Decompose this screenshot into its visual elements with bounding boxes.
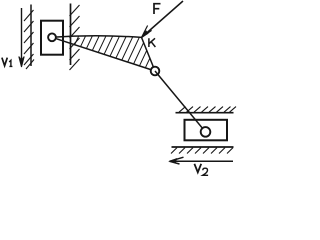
force arrow F: [142, 1, 184, 38]
left wall hatching: [24, 10, 34, 69]
pin joint in slider 2: [201, 127, 211, 137]
top rail of bottom guide: [176, 112, 234, 114]
right rail hatching: [70, 5, 80, 70]
slider block 1 (left): [41, 21, 63, 55]
right guide rail of left slider: [70, 4, 72, 66]
pin joint in slider 1: [48, 33, 56, 41]
label F: [154, 4, 161, 14]
velocity arrow V2: [170, 157, 234, 164]
top rail hatching: [179, 107, 236, 113]
label V1: [2, 58, 13, 67]
triangle link PKB (outline): [52, 36, 155, 71]
slider block 2 (bottom): [185, 120, 228, 141]
label K: [149, 38, 156, 47]
bottom rail hatching: [171, 148, 233, 154]
left wall rail (inner): [30, 5, 32, 67]
connecting link B-C: [155, 71, 206, 132]
bottom rail of bottom guide: [172, 146, 234, 148]
joint B circle: [151, 67, 160, 76]
velocity arrow V1: [19, 8, 24, 67]
label V2: [194, 164, 208, 176]
triangle hatch fill: [58, 29, 176, 80]
